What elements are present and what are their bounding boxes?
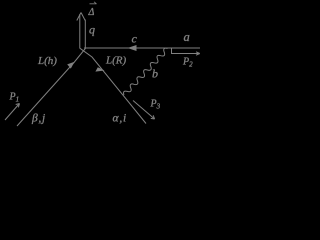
svg-text:β,j: β,j <box>31 113 46 125</box>
momentum arrow P3 (bottom right diag) <box>133 101 154 119</box>
wire: double line right vertical <box>84 20 86 49</box>
arrowhead up on double line <box>77 13 85 21</box>
arrowhead on right diagonal (pointing down-right) <box>95 67 104 71</box>
arrowhead on left diagonal (pointing up-right to vertex) <box>67 62 74 69</box>
wire: left diagonal fermion line <box>17 48 86 126</box>
arrowhead on horizontal line (pointing left) <box>128 45 137 51</box>
momentum arrow P1 (bottom left) <box>5 104 19 120</box>
label Delta with harpoon <box>88 2 97 18</box>
svg-text:a: a <box>184 30 190 44</box>
svg-text:Δ: Δ <box>88 7 95 18</box>
svg-text:L(h): L(h) <box>37 55 57 67</box>
svg-text:q: q <box>89 23 95 37</box>
wire: double line left vertical <box>79 14 81 49</box>
svg-text:α,i: α,i <box>113 113 128 125</box>
momentum arrow P2 (top right): tick + arrow <box>172 48 200 54</box>
gluon b wavy line <box>124 48 168 95</box>
svg-text:L(R): L(R) <box>105 55 127 67</box>
wire: right diagonal fermion line <box>80 48 146 123</box>
svg-text:c: c <box>132 32 138 46</box>
wire: horizontal quark line c <box>84 47 200 49</box>
svg-text:b: b <box>152 67 158 81</box>
